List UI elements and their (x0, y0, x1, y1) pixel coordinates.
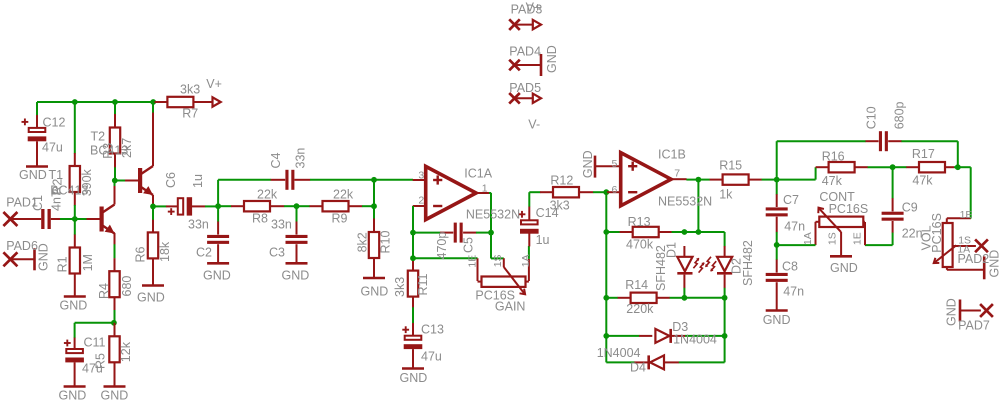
svg-text:SFH482: SFH482 (741, 240, 755, 286)
svg-text:R4: R4 (97, 283, 111, 299)
svg-text:GND: GND (60, 299, 88, 313)
svg-text:5: 5 (612, 158, 618, 170)
svg-text:PAD5: PAD5 (509, 81, 541, 95)
svg-text:R14: R14 (625, 278, 648, 292)
svg-text:GND: GND (137, 291, 165, 305)
svg-text:PC16S: PC16S (930, 213, 944, 253)
svg-text:PAD2: PAD2 (958, 252, 990, 266)
svg-text:1A: 1A (520, 254, 532, 267)
svg-text:GND: GND (830, 261, 858, 275)
svg-text:C4: C4 (269, 152, 283, 168)
svg-text:C6: C6 (164, 172, 178, 188)
svg-text:680: 680 (120, 276, 134, 297)
svg-text:GND: GND (400, 371, 428, 385)
svg-text:PAD4: PAD4 (509, 45, 541, 59)
svg-text:1k: 1k (719, 187, 733, 201)
svg-text:GND: GND (282, 269, 310, 283)
svg-text:C3: C3 (269, 246, 285, 260)
svg-text:V+: V+ (526, 0, 542, 14)
svg-text:1M: 1M (81, 254, 95, 271)
svg-text:GND: GND (581, 150, 595, 178)
svg-text:22k: 22k (257, 187, 278, 201)
svg-text:47k: 47k (912, 174, 933, 188)
svg-text:390k: 390k (80, 168, 94, 196)
svg-text:T2: T2 (91, 130, 106, 144)
svg-text:GND: GND (945, 298, 959, 326)
svg-text:GND: GND (59, 389, 87, 403)
svg-text:GND: GND (988, 250, 1000, 278)
svg-text:R2: R2 (51, 179, 65, 195)
svg-text:GND: GND (19, 168, 47, 182)
svg-text:47u: 47u (82, 362, 103, 376)
svg-text:R7: R7 (182, 106, 198, 120)
svg-text:GND: GND (203, 269, 231, 283)
svg-text:22k: 22k (333, 187, 354, 201)
svg-text:220k: 220k (626, 302, 654, 316)
svg-text:47u: 47u (42, 141, 63, 155)
svg-text:47n: 47n (784, 220, 805, 234)
svg-text:GND: GND (763, 313, 791, 327)
svg-text:V+: V+ (206, 77, 222, 91)
svg-text:1N4004: 1N4004 (673, 333, 717, 347)
svg-text:C10: C10 (864, 106, 878, 129)
svg-text:R1: R1 (55, 256, 69, 272)
svg-text:47k: 47k (822, 174, 843, 188)
svg-text:1A: 1A (802, 232, 814, 245)
svg-text:1u: 1u (536, 233, 550, 247)
svg-text:680p: 680p (892, 101, 906, 129)
svg-text:R6: R6 (134, 246, 148, 262)
svg-text:1N4004: 1N4004 (597, 346, 641, 360)
svg-text:NE5532N: NE5532N (658, 194, 712, 208)
svg-text:12k: 12k (119, 341, 133, 362)
svg-text:2k7: 2k7 (120, 138, 134, 158)
svg-text:3k3: 3k3 (180, 82, 200, 96)
svg-text:3: 3 (418, 169, 424, 181)
svg-text:C11: C11 (84, 336, 106, 350)
svg-text:PC16S: PC16S (829, 202, 869, 216)
svg-text:PAD6: PAD6 (6, 239, 38, 253)
svg-text:C1: C1 (31, 195, 45, 211)
svg-text:C12: C12 (43, 116, 66, 130)
svg-text:7: 7 (674, 168, 680, 180)
svg-text:47u: 47u (421, 350, 442, 364)
svg-text:GND: GND (37, 243, 51, 271)
svg-text:33n: 33n (271, 218, 292, 232)
svg-text:R13: R13 (628, 215, 651, 229)
svg-text:18k: 18k (158, 241, 172, 262)
svg-text:R12: R12 (550, 174, 573, 188)
svg-text:GND: GND (545, 45, 559, 73)
svg-text:V-: V- (528, 117, 540, 131)
svg-text:1S: 1S (492, 254, 504, 267)
svg-text:470k: 470k (626, 238, 654, 252)
svg-text:R17: R17 (912, 147, 935, 161)
svg-text:IC1A: IC1A (464, 167, 492, 181)
svg-text:R15: R15 (719, 159, 742, 173)
svg-text:33n: 33n (188, 218, 209, 232)
svg-text:SFH482: SFH482 (654, 245, 668, 291)
svg-text:R9: R9 (332, 212, 348, 226)
svg-text:33n: 33n (294, 148, 308, 169)
svg-text:470p: 470p (435, 232, 449, 260)
svg-text:GAIN: GAIN (495, 300, 526, 314)
svg-text:2: 2 (418, 194, 424, 206)
svg-text:8k2: 8k2 (356, 232, 370, 252)
svg-text:R8: R8 (252, 212, 268, 226)
svg-text:R11: R11 (416, 273, 430, 295)
svg-text:3k3: 3k3 (550, 199, 570, 213)
svg-text:R10: R10 (379, 231, 393, 254)
svg-text:C7: C7 (783, 193, 799, 207)
svg-text:R16: R16 (822, 149, 845, 163)
svg-text:C2: C2 (196, 246, 212, 260)
svg-text:C13: C13 (421, 323, 444, 337)
svg-text:C5: C5 (462, 237, 476, 253)
svg-text:GND: GND (101, 389, 129, 403)
svg-text:1E: 1E (466, 255, 478, 268)
svg-text:C8: C8 (782, 260, 798, 274)
svg-text:1u: 1u (191, 174, 205, 188)
svg-text:GND: GND (361, 285, 389, 299)
svg-text:C9: C9 (902, 201, 918, 215)
svg-text:D4: D4 (630, 361, 646, 375)
svg-text:NE5532N: NE5532N (466, 207, 520, 221)
svg-text:1E: 1E (851, 232, 863, 245)
svg-text:1E: 1E (960, 209, 973, 221)
svg-text:IC1B: IC1B (658, 147, 686, 161)
svg-text:PAD7: PAD7 (958, 319, 990, 333)
svg-text:6: 6 (612, 184, 618, 196)
svg-text:3k3: 3k3 (393, 277, 407, 297)
svg-text:1: 1 (482, 183, 488, 195)
svg-text:R3: R3 (101, 143, 115, 159)
svg-text:1S: 1S (827, 232, 839, 245)
svg-text:47n: 47n (783, 285, 804, 299)
